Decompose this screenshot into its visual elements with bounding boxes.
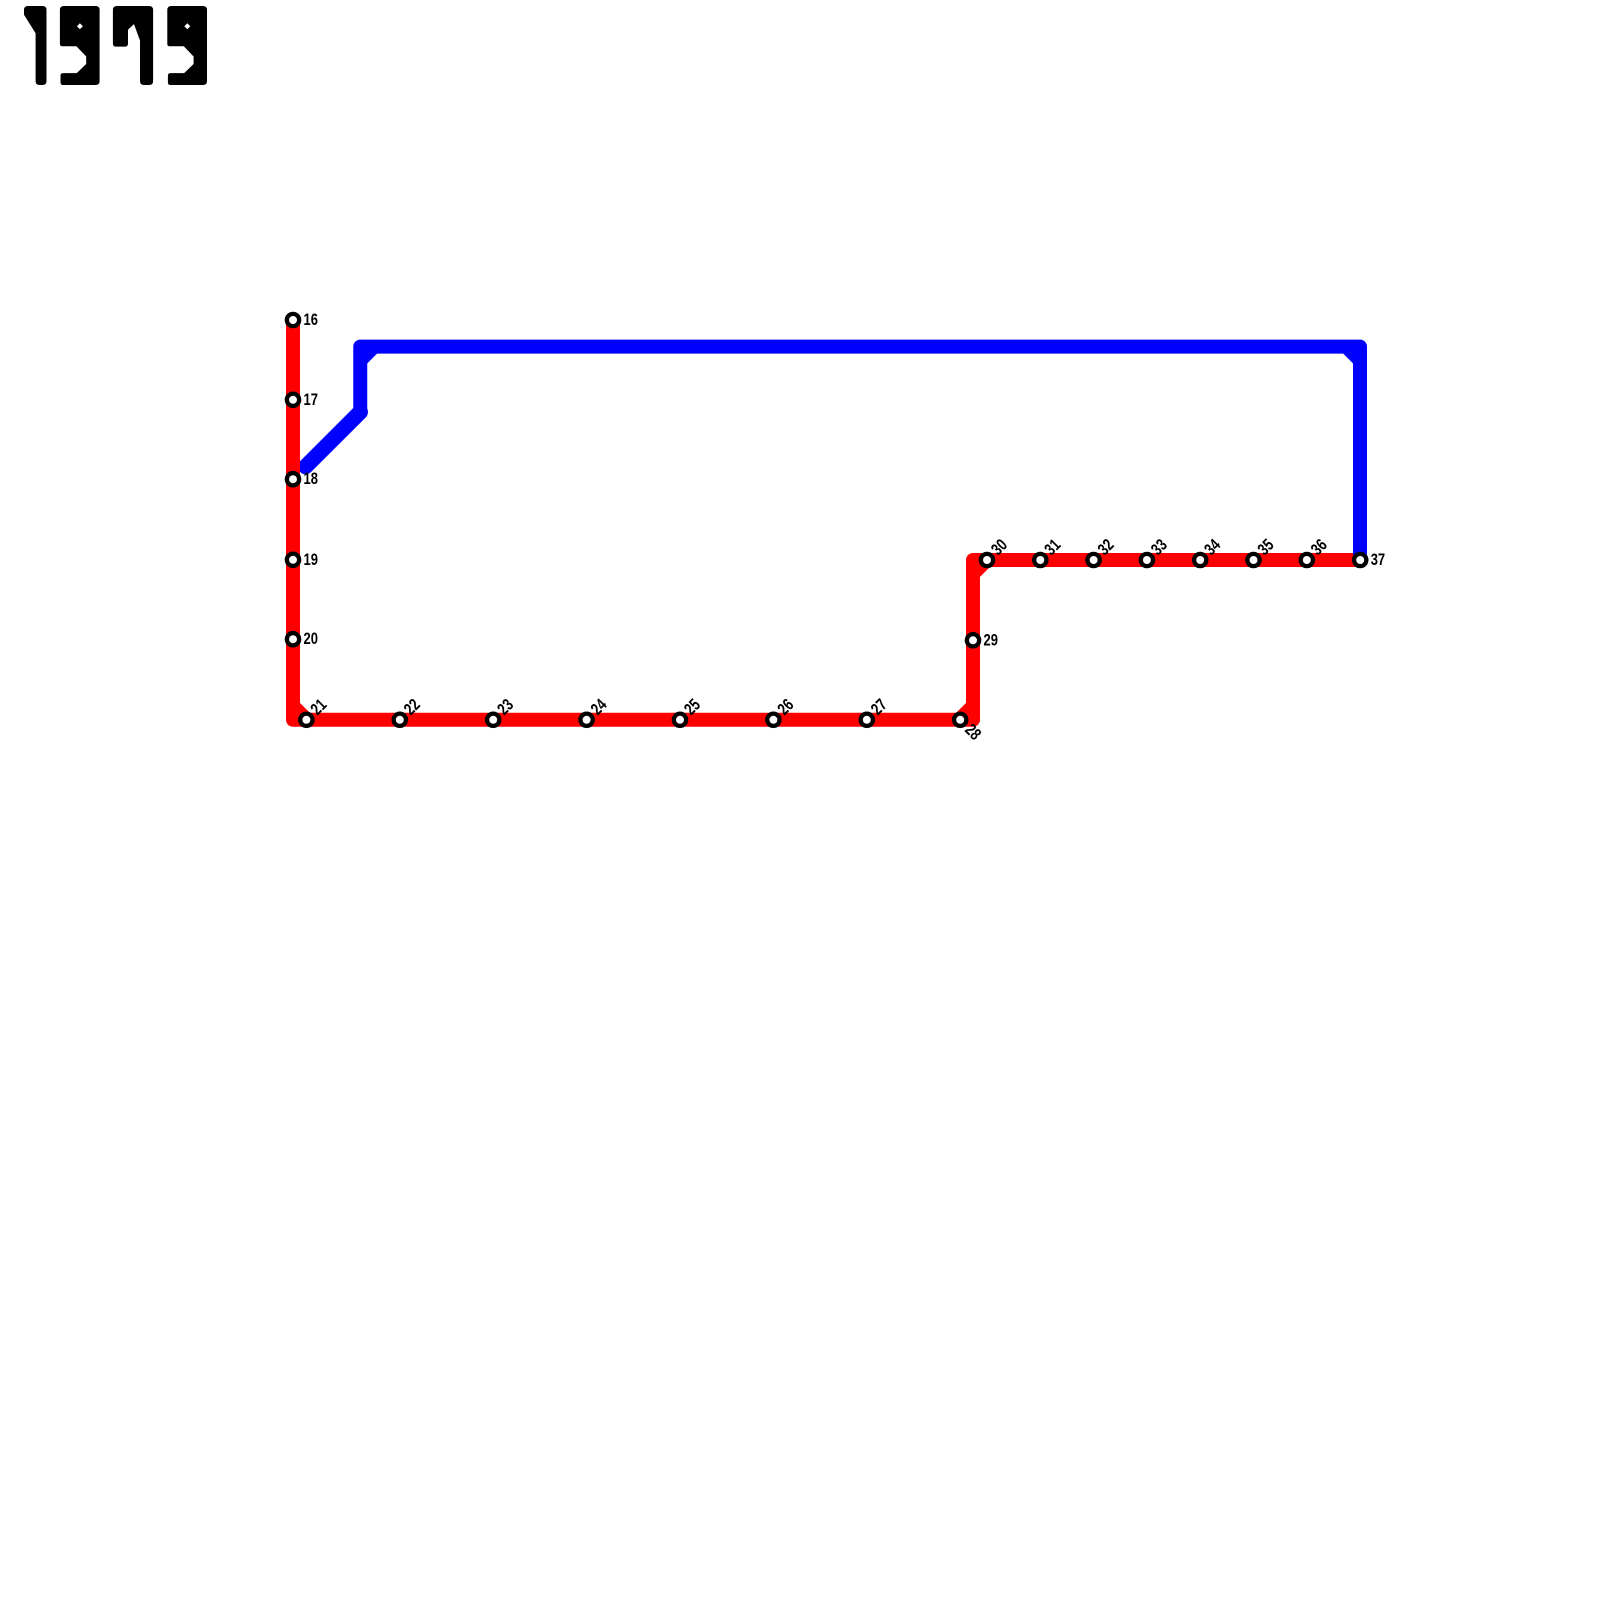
title 1979 digit 1 [24, 6, 47, 85]
title 1979 digit 9 (second) [167, 6, 207, 85]
station 16 [287, 314, 299, 326]
red line main path [293, 320, 1360, 720]
station 33 [1141, 554, 1153, 566]
station 27 [861, 714, 873, 726]
station 23 [487, 714, 499, 726]
station 30 [981, 554, 993, 566]
station 22 [394, 714, 406, 726]
station 29 [967, 634, 979, 646]
station 28 [954, 714, 966, 726]
station 17 [287, 394, 299, 406]
station 20 [287, 633, 299, 645]
red corner connector A (bottom-left) [293, 706, 307, 720]
title 1979 digit 9 (first) [60, 6, 100, 85]
red corner connector B (bottom-right) [959, 706, 973, 720]
station 21 [300, 714, 312, 726]
blue corner connector D (top-left) [360, 347, 374, 361]
svg-text:37: 37 [1371, 550, 1385, 569]
svg-text:16: 16 [304, 310, 318, 329]
station 32 [1087, 554, 1099, 566]
blue line diagonal segment (station 18 branch) [306, 412, 361, 467]
station 18 [287, 473, 299, 485]
station 37 [1354, 554, 1366, 566]
station 24 [580, 714, 592, 726]
svg-text:29: 29 [984, 631, 998, 650]
station 19 [287, 554, 299, 566]
station 35 [1247, 554, 1259, 566]
station 36 [1301, 554, 1313, 566]
svg-text:19: 19 [304, 550, 318, 569]
blue corner connector E (top-right) [1346, 347, 1360, 361]
blue line main path [360, 347, 1360, 553]
red corner connector C (right top) [973, 560, 987, 574]
svg-text:18: 18 [304, 470, 318, 489]
svg-text:20: 20 [304, 630, 318, 649]
station 31 [1034, 554, 1046, 566]
station 34 [1194, 554, 1206, 566]
svg-text:17: 17 [304, 390, 318, 409]
station 25 [674, 714, 686, 726]
station 26 [767, 714, 779, 726]
title 1979 digit 7 [113, 6, 153, 85]
